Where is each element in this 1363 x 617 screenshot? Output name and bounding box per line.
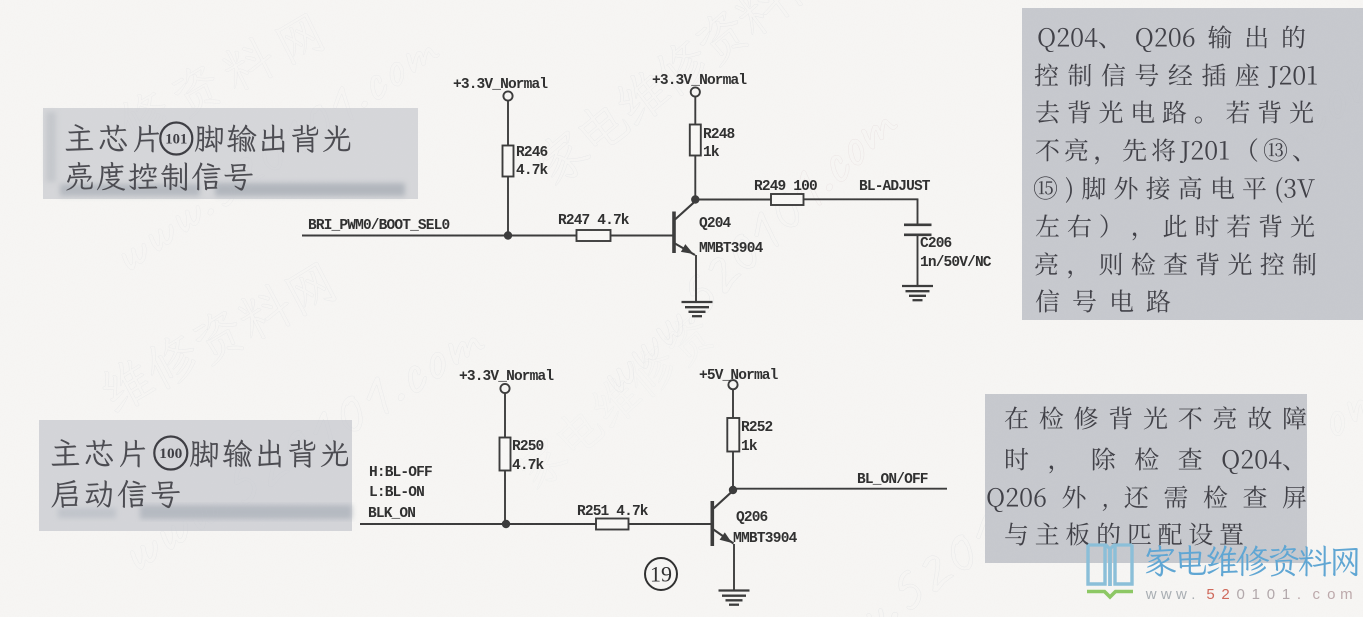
paragraph1 line2	[1035, 64, 1058, 87]
node collector Q204	[691, 195, 699, 203]
watermark ghost top-right on gray	[1285, 62, 1363, 146]
watermark CJK top-center	[529, 0, 830, 190]
wire Q204 emitter to ground	[695, 255, 697, 302]
scan-gray backdrop: right paragraph 2	[985, 394, 1307, 563]
scan-gray backdrop: left note block 1	[43, 108, 418, 199]
logo book icon	[1088, 545, 1132, 587]
wire rail to R252	[732, 389, 734, 418]
resistor R248	[690, 125, 701, 156]
watermark ghost right edge mid	[1323, 387, 1363, 438]
wire R252 to collector node	[732, 452, 734, 491]
logo book green base	[1087, 592, 1133, 598]
wire rail2 to R248	[694, 97, 696, 125]
node junction base2	[502, 520, 510, 528]
paragraph1 line3	[1036, 101, 1059, 124]
paragraph1 line1	[1038, 28, 1054, 52]
wire R246 to node	[507, 177, 509, 236]
wire rail1 to R246	[507, 101, 509, 146]
wire BL_ON/OFF net	[733, 488, 947, 490]
node junction base1	[504, 231, 512, 239]
wire Q206 emitter to ground	[733, 544, 735, 590]
transistor Q204	[672, 212, 676, 254]
watermark script center	[597, 101, 901, 396]
watermark CJK bottom-left	[95, 257, 338, 417]
node collector Q206	[729, 486, 737, 494]
wire R247 to Q204 base	[611, 235, 673, 237]
paragraph1 line5	[1034, 176, 1057, 199]
circled 100	[154, 437, 187, 470]
capacitor C206	[904, 224, 932, 227]
wire BLK_ON net	[360, 523, 596, 525]
resistor R252	[727, 418, 739, 452]
note block2 line1: 主芯片(100)脚输出背光	[52, 439, 80, 466]
scan-gray backdrop: left note block 2	[39, 420, 352, 531]
scan smudge strip block1	[46, 112, 405, 196]
watermark CJK center-bottom	[511, 309, 719, 493]
wire C206 to ground	[917, 236, 919, 286]
paragraph2 line2	[1006, 448, 1028, 471]
note block2 line2: 启动信号	[51, 480, 77, 508]
ground under Q206	[719, 589, 750, 591]
paragraph1 line4	[1036, 139, 1059, 161]
circled 101	[160, 123, 192, 155]
resistor R246	[503, 146, 514, 177]
watermark script bottom-left	[121, 318, 487, 574]
scan smudge strip block2	[58, 505, 352, 519]
scan-gray backdrop: right paragraph 1	[1022, 8, 1363, 320]
resistor R250	[500, 438, 511, 471]
resistor R249	[771, 194, 804, 205]
paragraph2 line1	[1005, 407, 1028, 430]
ground under C206	[902, 285, 933, 287]
resistor R251	[596, 519, 629, 530]
wire R251 to Q206 base	[629, 523, 711, 525]
wire BRI_PWM0 net	[302, 235, 577, 237]
figure number 19 circled	[645, 558, 677, 590]
wire corner down to C206	[917, 199, 919, 224]
logo title 家电维修资料网	[1146, 545, 1176, 576]
watermark CJK top-left	[112, 8, 326, 148]
paragraph2 line3	[987, 488, 1003, 512]
transistor Q206	[710, 501, 714, 546]
wire R248 to collector node	[694, 156, 696, 200]
note block1 line1: 主芯片(101)脚输出背光	[66, 124, 94, 151]
paragraph1 line8	[1036, 289, 1059, 312]
wire R250 to node	[504, 471, 506, 525]
paragraph2 line4	[1005, 523, 1027, 546]
wire rail3 to R250	[504, 393, 506, 437]
paragraph1 line7	[1035, 252, 1057, 275]
wire R249 to corner	[804, 198, 919, 200]
watermark script upper-left	[113, 30, 442, 274]
paragraph1 line6	[1036, 215, 1059, 237]
note block1 line2: 亮度控制信号	[66, 162, 92, 191]
wire node to R249	[695, 199, 771, 201]
ground under Q204	[682, 301, 713, 303]
resistor R247	[577, 230, 611, 241]
watermark script bottom-center	[788, 478, 1060, 617]
